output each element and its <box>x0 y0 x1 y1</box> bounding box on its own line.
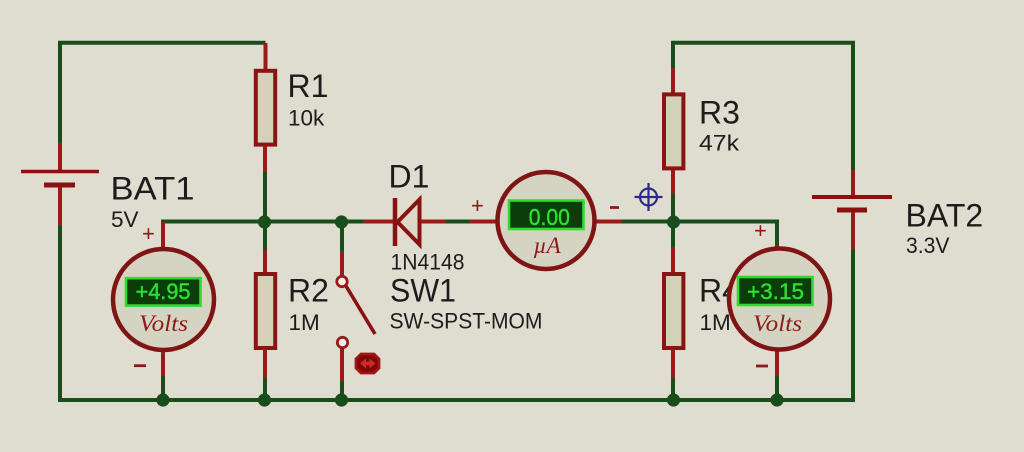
wire: voltmeter2 bottom stub <box>775 374 779 400</box>
diode D1 <box>363 198 446 246</box>
svg-text:SW1: SW1 <box>390 273 456 309</box>
svg-text:3.3V: 3.3V <box>906 233 950 258</box>
wire: middle-left horizontal net <box>161 220 364 224</box>
svg-text:R2: R2 <box>288 273 329 309</box>
node: ground junction R4 <box>667 393 680 406</box>
wire: R4 bottom stub <box>671 377 675 400</box>
svg-text:BAT2: BAT2 <box>906 198 984 234</box>
wire: right vertical below BAT2 <box>851 248 855 402</box>
svg-text:µA: µA <box>533 233 561 258</box>
svg-text:1N4148: 1N4148 <box>391 250 465 275</box>
svg-text:5V: 5V <box>111 207 139 232</box>
voltmeter VM2 display <box>738 277 813 305</box>
voltmeter VM1 display <box>126 278 201 305</box>
wire: SW1 top stub <box>340 222 344 251</box>
switch SW1 actuator button <box>356 354 379 373</box>
wire: diode to ammeter mid segment <box>444 220 471 224</box>
ammeter minus mark <box>610 206 619 209</box>
voltmeter VM2 body <box>729 249 830 350</box>
node: junction middle-left (R2 tap) <box>258 215 271 228</box>
voltmeter VM1 top pin <box>161 222 165 254</box>
ammeter display <box>509 201 584 231</box>
wire: R3 bottom to middle node <box>671 193 675 222</box>
wire: voltmeter1 bottom stub <box>161 374 165 400</box>
wire: R4 top stub <box>671 222 675 248</box>
svg-text:47k: 47k <box>699 131 740 156</box>
svg-text:+: + <box>142 221 155 246</box>
voltmeter VM1 minus mark <box>134 364 146 367</box>
resistor R1 <box>256 43 275 172</box>
switch SW1 <box>337 251 375 381</box>
resistor R4 <box>664 247 683 378</box>
node: ground junction VM1 <box>156 393 169 406</box>
wire: bottom ground rail <box>58 398 855 402</box>
svg-text:R3: R3 <box>699 95 740 131</box>
wire: ammeter to right net with corner to voltmeter2 <box>621 222 777 247</box>
svg-text:SW-SPST-MOM: SW-SPST-MOM <box>390 309 543 334</box>
node marker: origin crosshair <box>635 183 663 211</box>
svg-text:+: + <box>471 193 484 218</box>
node: ground junction SW1 <box>335 393 348 406</box>
node: ground junction R2 <box>258 393 271 406</box>
wire: top-left horizontal rail <box>60 43 266 144</box>
ammeter right pin <box>592 220 622 224</box>
svg-text:+: + <box>754 218 767 243</box>
svg-text:0.00: 0.00 <box>529 204 570 230</box>
battery BAT2 <box>812 170 892 249</box>
voltmeter VM2 bottom pin <box>775 346 779 376</box>
svg-text:Volts: Volts <box>753 311 802 336</box>
svg-text:+3.15: +3.15 <box>747 279 804 304</box>
node: junction middle SW1 tap <box>335 215 348 228</box>
wire: R1 bottom to middle node <box>263 171 267 222</box>
voltmeter VM1 bottom pin <box>161 346 165 376</box>
svg-text:1M: 1M <box>700 310 731 335</box>
wire: R2 top stub <box>263 222 267 251</box>
resistor R3 <box>664 68 683 194</box>
svg-text:BAT1: BAT1 <box>111 171 195 207</box>
wire: SW1 bottom stub <box>340 380 344 400</box>
svg-text:1M: 1M <box>289 310 320 335</box>
ammeter U1 body <box>498 172 595 269</box>
wire: R2 bottom stub <box>263 377 267 400</box>
svg-text:+4.95: +4.95 <box>136 279 191 304</box>
svg-text:Volts: Volts <box>139 311 188 336</box>
wire: top-right horizontal rail <box>673 43 853 172</box>
voltmeter VM2 minus mark <box>756 365 768 368</box>
voltmeter VM1 body <box>113 249 214 350</box>
battery BAT1 <box>21 143 99 225</box>
resistor R2 <box>256 250 275 378</box>
node: junction middle-right (R3/R4 tap) <box>667 215 680 228</box>
node: ground junction VM2 <box>770 393 783 406</box>
ammeter left pin <box>469 220 500 224</box>
voltmeter VM2 top pin <box>775 245 779 254</box>
wire: left vertical below BAT1 <box>58 224 62 400</box>
svg-text:D1: D1 <box>389 159 430 195</box>
svg-text:10k: 10k <box>288 106 325 131</box>
svg-text:R1: R1 <box>288 68 329 104</box>
